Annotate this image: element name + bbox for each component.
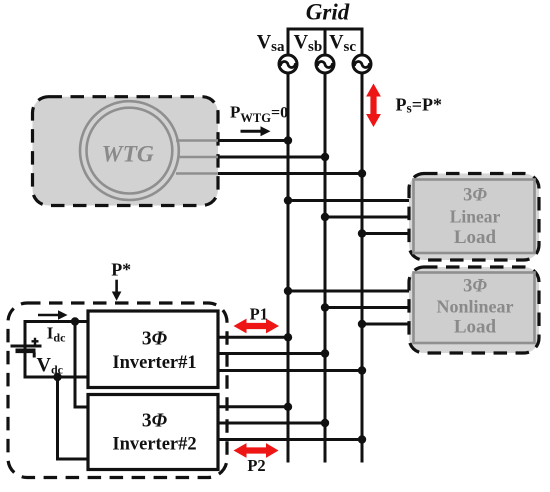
svg-text:WTG: WTG <box>102 142 154 168</box>
svg-text:3Φ: 3Φ <box>142 411 168 432</box>
svg-text:Load: Load <box>454 317 497 338</box>
svg-text:Vsb: Vsb <box>294 31 323 55</box>
svg-text:Inverter#2: Inverter#2 <box>112 435 196 455</box>
svg-text:PWTG=0: PWTG=0 <box>230 103 288 126</box>
svg-text:P*: P* <box>111 260 131 280</box>
svg-text:Nonlinear: Nonlinear <box>436 297 513 317</box>
svg-text:Grid: Grid <box>306 0 350 25</box>
svg-text:Vsc: Vsc <box>329 31 356 55</box>
svg-text:Vsa: Vsa <box>257 31 285 55</box>
svg-text:Load: Load <box>454 227 497 248</box>
svg-text:3Φ: 3Φ <box>463 277 487 297</box>
svg-text:Linear: Linear <box>450 207 501 227</box>
svg-text:P1: P1 <box>250 305 268 324</box>
svg-text:Ps=P*: Ps=P* <box>396 95 443 116</box>
svg-text:3Φ: 3Φ <box>463 186 487 206</box>
svg-text:Inverter#1: Inverter#1 <box>112 353 196 373</box>
svg-text:P2: P2 <box>247 456 265 475</box>
svg-text:3Φ: 3Φ <box>142 329 168 350</box>
